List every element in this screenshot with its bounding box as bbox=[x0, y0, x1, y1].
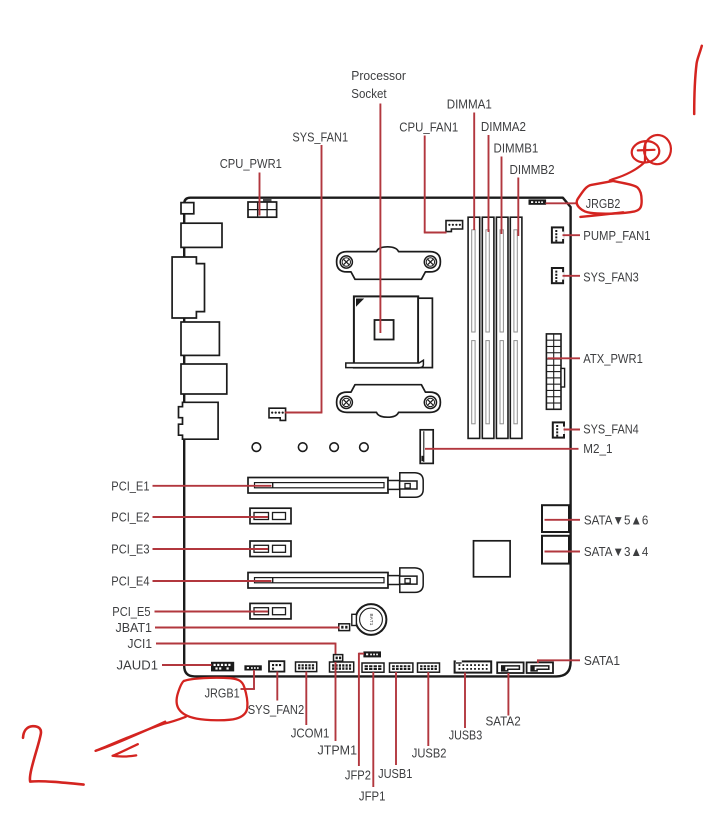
leader JUSB2 bbox=[427, 672, 429, 746]
connector CPU_FAN1 bbox=[446, 221, 463, 232]
leader JFP2 bbox=[359, 653, 364, 655]
connector JRGB2 bbox=[529, 199, 547, 204]
SATA port 3/4 bbox=[542, 536, 569, 564]
cpu top retention bracket bbox=[337, 247, 441, 279]
leader SYS_FAN1 bbox=[321, 145, 323, 413]
svg-text:DIMMB2: DIMMB2 bbox=[510, 162, 555, 177]
cpu socket bottom lever bbox=[346, 360, 424, 367]
cpu bottom retention bracket bbox=[337, 385, 441, 418]
svg-text:PCI_E5: PCI_E5 bbox=[112, 604, 150, 619]
svg-text:JBAT1: JBAT1 bbox=[116, 620, 153, 635]
svg-text:JTPM1: JTPM1 bbox=[318, 743, 358, 758]
connector CPU_PWR1 bbox=[248, 202, 277, 217]
io port audio block bbox=[179, 402, 219, 439]
connector JCI1 bbox=[334, 655, 343, 662]
leader JRGB2 bbox=[546, 202, 578, 204]
svg-text:Socket: Socket bbox=[351, 86, 387, 101]
connector ATX_PWR1 bbox=[546, 334, 561, 409]
svg-text:JCOM1: JCOM1 bbox=[291, 726, 330, 741]
io port small square bbox=[181, 203, 194, 214]
leader PCI_E3 bbox=[153, 548, 269, 550]
jumper JBAT1 bbox=[339, 624, 350, 631]
connector JUSB2 bbox=[418, 663, 440, 672]
battery BAT1 bbox=[356, 604, 387, 635]
cpu bottom bracket screw left bbox=[340, 396, 352, 408]
svg-text:SATA2: SATA2 bbox=[486, 714, 521, 729]
leader CPU_PWR1 bbox=[259, 173, 261, 216]
leader SYS_FAN4 bbox=[564, 429, 581, 431]
cpu socket right panel bbox=[418, 298, 432, 367]
svg-text:ATX_PWR1: ATX_PWR1 bbox=[583, 351, 643, 366]
leader JUSB1 bbox=[395, 672, 397, 765]
cpu bottom bracket screw right bbox=[424, 396, 436, 408]
handwritten loop around JRGB1 bbox=[177, 678, 248, 720]
svg-text:SYS_FAN3: SYS_FAN3 bbox=[583, 269, 639, 284]
svg-text:Processor: Processor bbox=[351, 68, 406, 83]
leader SATA2 bbox=[507, 673, 509, 716]
PCI_E4 latch bbox=[388, 576, 400, 585]
motherboard outline bbox=[184, 198, 570, 677]
leader SATA1 bbox=[537, 659, 580, 661]
leader JRGB1 bbox=[253, 670, 255, 689]
leader JAUD1 bbox=[162, 664, 212, 666]
connector JAUD1 bbox=[211, 662, 234, 672]
connector JFP1 bbox=[362, 663, 384, 672]
svg-text:SYS_FAN2: SYS_FAN2 bbox=[248, 702, 305, 717]
leader PUMP_FAN1 bbox=[563, 234, 581, 236]
svg-text:PCI_E3: PCI_E3 bbox=[111, 542, 149, 557]
cpu socket inner square bbox=[375, 320, 394, 340]
leader PCI_E1 bbox=[153, 485, 272, 487]
PCI_E4 slot bbox=[248, 573, 388, 589]
svg-text:SATA1: SATA1 bbox=[584, 653, 620, 668]
svg-text:SYS_FAN1: SYS_FAN1 bbox=[292, 130, 348, 145]
svg-text:BAT1: BAT1 bbox=[369, 614, 374, 626]
connector SYS_FAN1 bbox=[269, 408, 286, 420]
mounting hole 1 bbox=[252, 443, 261, 452]
svg-text:JRGB2: JRGB2 bbox=[586, 196, 621, 211]
leader JBAT1 bbox=[155, 627, 340, 629]
svg-text:SYS_FAN4: SYS_FAN4 bbox=[583, 422, 639, 437]
svg-text:SATA▼5▲6: SATA▼5▲6 bbox=[584, 512, 649, 527]
cpu socket corner triangle bbox=[357, 299, 364, 306]
handwritten loop around JRGB2 bbox=[577, 181, 642, 214]
leader JFP1 bbox=[372, 672, 374, 787]
PCI_E1 latch bbox=[388, 481, 400, 490]
io port usb block bbox=[181, 322, 219, 355]
leader SATA 3/4 bbox=[545, 551, 581, 553]
SATA port 5/6 bbox=[542, 505, 569, 532]
leader SYS_FAN3 bbox=[563, 275, 581, 277]
leader SATA 5/6 bbox=[545, 519, 581, 521]
svg-text:DIMMA2: DIMMA2 bbox=[481, 119, 526, 134]
mounting hole 2 bbox=[298, 443, 307, 452]
handwritten mark 2 (bottom left) bbox=[23, 726, 84, 784]
svg-text:JAUD1: JAUD1 bbox=[117, 658, 159, 673]
io port lan block bbox=[181, 364, 227, 394]
svg-text:PUMP_FAN1: PUMP_FAN1 bbox=[583, 228, 650, 243]
leader JUSB3 bbox=[464, 673, 466, 729]
svg-text:M2_1: M2_1 bbox=[583, 441, 612, 456]
handwritten mark 1 (top right) bbox=[694, 46, 702, 114]
leader PCI_E2 bbox=[153, 516, 269, 518]
handwritten arrow to JRGB1 bbox=[96, 717, 186, 751]
svg-text:SATA▼3▲4: SATA▼3▲4 bbox=[584, 544, 649, 559]
svg-text:CPU_FAN1: CPU_FAN1 bbox=[399, 120, 458, 135]
leader JCI1 bbox=[156, 643, 336, 645]
io port usb-lan stack bbox=[172, 257, 204, 318]
leader DIMMB1 bbox=[501, 157, 503, 235]
svg-text:CPU_PWR1: CPU_PWR1 bbox=[220, 156, 282, 171]
leader Processor Socket bbox=[379, 104, 381, 334]
PCI_E3 slot bbox=[250, 541, 291, 557]
leader DIMMA1 bbox=[473, 113, 475, 231]
connector JTPM1 bbox=[330, 662, 354, 672]
PCI_E1 slot bbox=[248, 478, 388, 494]
leader PCI_E4 bbox=[153, 580, 272, 582]
svg-text:JCI1: JCI1 bbox=[128, 636, 153, 651]
connector PUMP_FAN1 bbox=[552, 227, 563, 242]
io port ps2 bbox=[181, 223, 222, 247]
DIMM slots DIMMA1 DIMMA2 DIMMB1 DIMMB2 bbox=[468, 217, 480, 438]
PCI_E5 slot bbox=[250, 603, 291, 619]
svg-text:DIMMB1: DIMMB1 bbox=[494, 141, 539, 156]
connector JFP2 bbox=[363, 651, 381, 657]
cpu socket square bbox=[354, 296, 418, 367]
leader JTPM1 bbox=[335, 661, 337, 741]
svg-text:JFP2: JFP2 bbox=[345, 768, 371, 783]
mounting hole 4 bbox=[360, 443, 369, 452]
M.2 slot M2_1 bbox=[420, 430, 433, 464]
mounting hole 3 bbox=[330, 443, 339, 452]
svg-text:JFP1: JFP1 bbox=[359, 789, 386, 804]
svg-text:PCI_E4: PCI_E4 bbox=[111, 574, 149, 589]
svg-text:DIMMA1: DIMMA1 bbox=[447, 97, 492, 112]
leader PCI_E5 bbox=[155, 611, 269, 613]
cpu top bracket screw right bbox=[424, 256, 436, 268]
cpu power smudge bbox=[263, 198, 272, 201]
svg-text:PCI_E2: PCI_E2 bbox=[111, 510, 149, 525]
connector JRGB1 bbox=[244, 665, 261, 670]
chipset square bbox=[474, 541, 511, 577]
leader SYS_FAN2 bbox=[276, 672, 278, 701]
svg-text:JUSB2: JUSB2 bbox=[412, 746, 447, 761]
leader DIMMB2 bbox=[517, 178, 519, 237]
connector SYS_FAN2 bbox=[269, 661, 284, 671]
connector SYS_FAN3 bbox=[552, 268, 563, 283]
svg-text:JRGB1: JRGB1 bbox=[205, 686, 240, 701]
handwritten scribble circles (top right) bbox=[631, 140, 661, 164]
connector JUSB3 bbox=[455, 661, 492, 672]
leader CPU_FAN1 bbox=[424, 136, 426, 233]
svg-text:JUSB3: JUSB3 bbox=[449, 728, 483, 743]
leader JCOM1 bbox=[305, 672, 307, 726]
svg-text:JUSB1: JUSB1 bbox=[378, 766, 412, 781]
leader M2_1 bbox=[425, 448, 579, 450]
connector SYS_FAN4 bbox=[553, 422, 564, 437]
connector JCOM1 bbox=[296, 662, 317, 672]
leader DIMMA2 bbox=[488, 135, 490, 232]
leader ATX_PWR1 bbox=[548, 357, 581, 359]
svg-text:PCI_E1: PCI_E1 bbox=[111, 478, 149, 493]
cpu top bracket screw left bbox=[340, 256, 352, 268]
connector JUSB1 bbox=[390, 663, 413, 672]
PCI_E2 slot bbox=[250, 508, 291, 524]
SATA port SATA1 bbox=[527, 662, 553, 673]
SATA port SATA2 bbox=[497, 662, 523, 673]
